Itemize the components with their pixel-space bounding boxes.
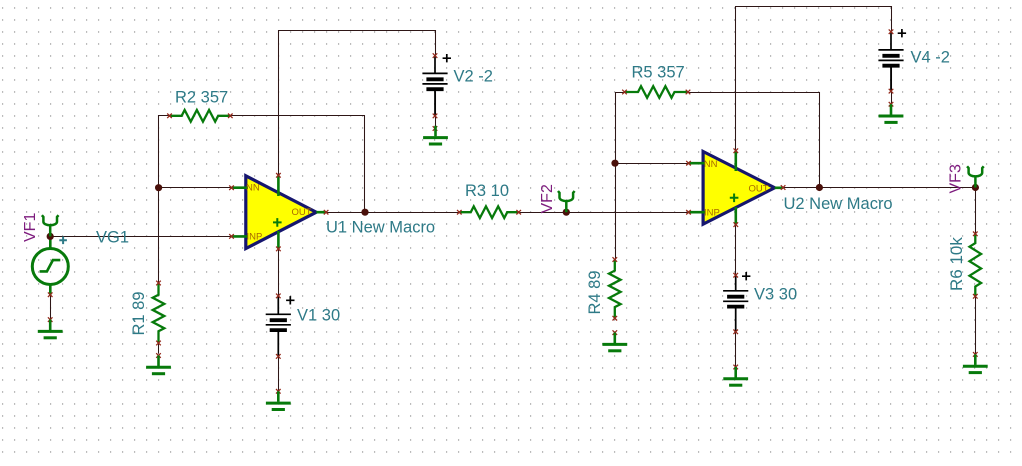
junction node B: [611, 160, 618, 167]
label VF3: [947, 164, 964, 193]
op-amp U2: [686, 148, 785, 227]
svg-text:VF2: VF2: [539, 184, 556, 213]
resistor R3: [457, 206, 521, 218]
plus sign V3: [742, 272, 750, 280]
svg-text:OUT: OUT: [749, 183, 769, 194]
svg-text:U1 New Macro: U1 New Macro: [326, 219, 435, 237]
wire V2 minus to ground: [435, 91, 437, 128]
battery V1: [266, 294, 291, 394]
plus sign V1: [286, 296, 294, 304]
label VF1: [22, 213, 39, 242]
ground below V2: [423, 126, 448, 144]
ground below V4: [879, 104, 904, 122]
ground below V1: [266, 391, 291, 409]
svg-text:VG1: VG1: [96, 229, 129, 247]
battery V3: [723, 273, 748, 369]
label R5 357: [632, 64, 685, 82]
svg-text:R2 357: R2 357: [175, 89, 228, 107]
battery V2: [422, 53, 447, 131]
svg-text:R6 10k: R6 10k: [947, 237, 966, 291]
resistor R4: [609, 257, 621, 335]
svg-text:V4 -2: V4 -2: [911, 49, 950, 67]
generator VG1: [32, 236, 68, 322]
wire U2 OUT to VF3: [783, 187, 975, 189]
plus sign V4: [898, 29, 906, 37]
wire R5 left to node B to R4: [616, 93, 625, 260]
svg-text:V2 -2: V2 -2: [454, 68, 493, 86]
ground below R6: [963, 354, 988, 372]
svg-text:R1 89: R1 89: [130, 291, 148, 335]
wire U1 V+ supply to V2: [279, 31, 436, 176]
resistor R1: [153, 281, 165, 346]
junction U1 output: [361, 209, 368, 216]
junction VF2: [563, 209, 570, 216]
label U2 New Macro: [784, 195, 893, 213]
wire VG1 minus to ground: [50, 286, 52, 320]
svg-text:R3 10: R3 10: [465, 182, 509, 200]
resistor R2: [167, 110, 232, 122]
label U1 New Macro: [326, 219, 435, 237]
resistor R6: [970, 232, 982, 357]
svg-text:V3 30: V3 30: [754, 286, 797, 304]
label R3 10: [465, 182, 509, 200]
wire V4 minus lead: [891, 67, 893, 91]
op-amp U1: [229, 173, 328, 251]
battery V4: [878, 29, 903, 106]
label V4 -2: [911, 49, 950, 67]
junction VG1: [47, 233, 54, 240]
wire R3 to U2 INP: [519, 212, 689, 214]
ground below VG1: [38, 320, 63, 338]
wire V4 minus stub: [891, 91, 893, 104]
wire U2 V- supply to V3: [735, 225, 737, 276]
ground below R4: [602, 333, 627, 351]
wire VG1 to U1 INP: [51, 236, 232, 238]
wire node A to U1 NN: [159, 187, 232, 189]
svg-text:VF1: VF1: [22, 213, 39, 242]
label VF2: [539, 184, 556, 213]
svg-text:V1 30: V1 30: [297, 307, 340, 325]
svg-text:NN: NN: [246, 183, 260, 194]
wire U1 V- supply to V1: [278, 249, 280, 296]
wire R2 left to node A to R1: [159, 116, 170, 284]
svg-text:VF3: VF3: [947, 164, 964, 193]
svg-text:INP: INP: [704, 208, 720, 219]
resistor R5: [622, 86, 690, 98]
wire V1 minus to ground: [278, 332, 280, 391]
svg-text:R5 357: R5 357: [632, 64, 685, 82]
plus sign VG1: [59, 237, 67, 245]
label R6 10k: [947, 237, 966, 291]
svg-text:R4 89: R4 89: [586, 270, 604, 314]
plus sign V2: [443, 54, 451, 62]
junction node A: [155, 184, 162, 191]
junction VF3: [972, 184, 979, 191]
svg-text:OUT: OUT: [292, 207, 312, 218]
svg-text:U2 New Macro: U2 New Macro: [784, 195, 893, 213]
label V3 30: [754, 286, 797, 304]
label R2 357: [175, 89, 228, 107]
probe VF2: [558, 191, 575, 212]
label R1 89: [130, 291, 148, 335]
label V2 -2: [454, 68, 493, 86]
wire R5 right to U2 output: [688, 93, 820, 188]
svg-text:NN: NN: [704, 159, 718, 170]
label VG1: [96, 229, 129, 247]
ground below V3: [723, 367, 748, 385]
label V1 30: [297, 307, 340, 325]
probe VF3: [967, 166, 984, 187]
wire R1 to ground: [158, 343, 160, 354]
wire VF3 to R6: [975, 188, 977, 234]
wire V3 minus to ground: [735, 308, 737, 367]
wire R6 to ground: [975, 296, 977, 354]
probe VF1: [42, 215, 59, 236]
svg-text:INP: INP: [247, 232, 263, 243]
wire U1 OUT to R3: [326, 212, 459, 214]
wire node B to U2 NN: [616, 163, 689, 165]
ground below R1: [146, 353, 171, 374]
wire feedback U1 out to R2 right: [230, 116, 364, 213]
label R4 89: [586, 270, 604, 314]
wire U2 V+ supply to V4: [736, 7, 892, 151]
junction U2 output: [816, 184, 823, 191]
